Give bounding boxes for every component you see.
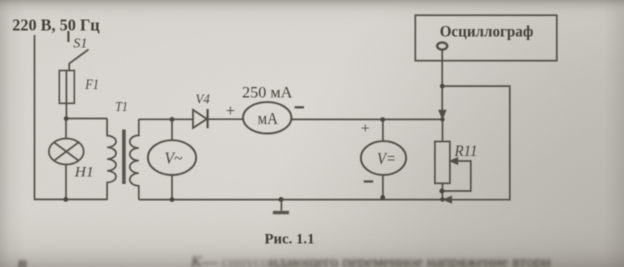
wire lamp branch lower [65,165,67,200]
transformer T1 primary winding [107,119,116,200]
fuse F1 inner wire [65,71,67,104]
svg-text:250 мА: 250 мА [242,84,293,101]
node junction lamp bottom [63,197,68,202]
svg-text:V~: V~ [165,148,183,167]
node junction V~ bottom [170,197,175,202]
node junction V~ top [170,117,175,122]
transformer T1 secondary winding [130,119,139,200]
resistor R11 body [435,142,450,184]
svg-text:+: + [361,121,370,138]
voltmeter V~ [148,140,196,175]
wire secondary bottom rail [139,199,443,201]
svg-text:мА: мА [258,109,278,128]
svg-text:H1: H1 [74,165,94,181]
wire bottom left rail [34,198,108,200]
wire primary top [66,118,107,120]
oscilloscope terminal [437,42,447,49]
svg-text:F1: F1 [84,77,99,93]
wire secondary top rail [139,118,193,120]
wire fuse to junction [65,103,67,118]
wire V~ branch lower [171,175,173,200]
node junction R11 top [440,117,444,121]
label minus ammeter [295,106,304,108]
svg-text:V=: V= [377,149,396,168]
svg-text:S1: S1 [73,35,87,50]
voltmeter V= [361,141,406,175]
wire R11 bottom [441,183,443,199]
wire left mains rail [34,35,36,199]
label minus V= [364,180,374,182]
node junction V= bottom [380,195,385,200]
ground [279,197,284,202]
bottom cropped text line [17,258,27,267]
wire V= branch upper [382,120,384,142]
node junction R11 rail [440,197,444,201]
wire probe down [441,50,443,111]
node junction V= top [380,117,385,122]
arrowhead probe left [444,196,452,203]
node junction probe split [440,84,445,89]
arrowhead probe down [439,110,446,119]
wire ammeter to R11 rail [291,118,442,120]
wire V= branch lower [382,175,384,200]
transformer T1 core bar [122,130,126,185]
svg-text:Осциллограф: Осциллограф [440,24,534,41]
diode V4 [193,110,207,128]
svg-text:V4: V4 [196,91,211,106]
R11 wiper arm [444,161,471,191]
wire R11 top branch [442,119,444,141]
wire lamp branch upper [65,119,67,139]
switch S1 fixed contact tick [67,31,69,42]
wire probe branch right [442,86,510,200]
svg-text:220 В, 50 Гц: 220 В, 50 Гц [12,15,100,34]
fuse F1 body [59,71,74,104]
switch S1 blade [69,50,88,71]
node junction R11 wiper/bottom [439,189,444,194]
wire V~ branch upper [171,119,173,140]
arrowhead R11 wiper [450,158,458,165]
ammeter mA [243,102,291,133]
oscilloscope box [415,15,557,61]
svg-text:+: + [226,101,235,120]
svg-text:T1: T1 [115,99,128,114]
lamp H1 [49,139,84,165]
svg-text:Рис. 1.1: Рис. 1.1 [265,231,315,247]
wire diode to ammeter [208,118,243,120]
node junction fuse/lamp/primary top [64,116,69,121]
